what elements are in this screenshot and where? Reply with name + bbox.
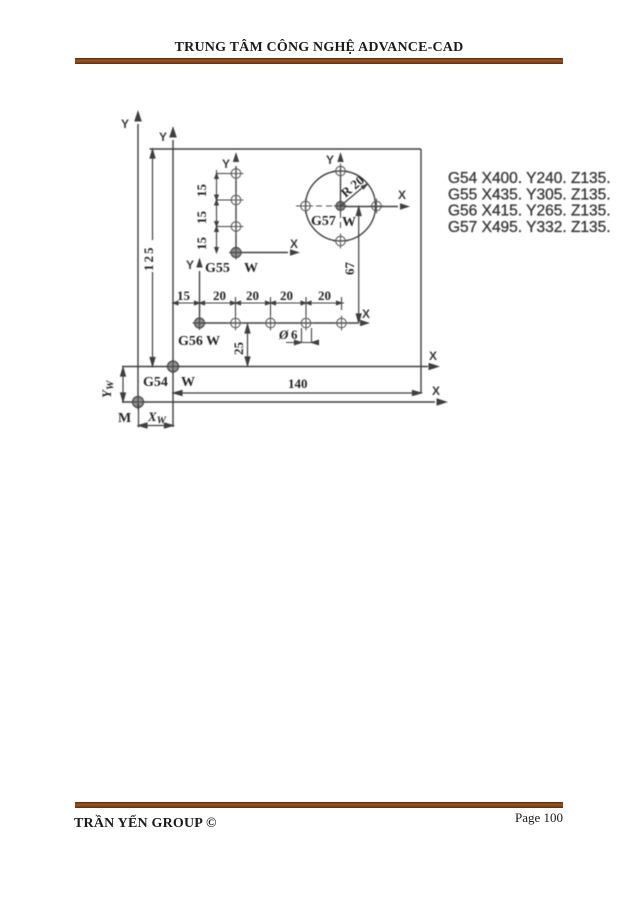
svg-text:R 20: R 20 [338, 172, 367, 200]
header title [0, 40, 638, 56]
footer right [515, 810, 563, 826]
workpiece outline top edge [150, 148, 422, 150]
svg-text:Y: Y [121, 117, 129, 131]
G56 spacing dimension row [173, 297, 344, 316]
arrowhead M Y [134, 110, 142, 122]
svg-text:G56: G56 [178, 334, 203, 349]
svg-text:15: 15 [194, 211, 209, 225]
svg-text:W: W [206, 334, 220, 349]
svg-text:67: 67 [342, 262, 357, 276]
axis G55 X [236, 252, 288, 254]
hole G55-3 [231, 222, 241, 232]
svg-text:G57 X495. Y332. Z135.: G57 X495. Y332. Z135. [448, 219, 611, 236]
svg-text:125: 125 [141, 246, 156, 272]
arrowhead G55 Y [233, 152, 239, 162]
axis G56 X [200, 322, 359, 324]
axis G57 Y [340, 166, 342, 206]
G57 dashed centerlines [296, 206, 341, 232]
arrowhead G54 Y [169, 126, 177, 138]
axis G55 Y [235, 166, 237, 253]
svg-text:X: X [432, 384, 440, 398]
svg-text:G54: G54 [143, 375, 168, 390]
svg-text:140: 140 [288, 376, 308, 391]
arrowhead G57 Y [337, 152, 343, 162]
arrowhead G54 X [429, 363, 441, 371]
dimension Xw [139, 404, 174, 428]
arrowhead G56 X [360, 320, 370, 326]
svg-text:15: 15 [177, 288, 191, 303]
svg-text:6: 6 [291, 327, 298, 342]
dimension Yw [121, 368, 126, 402]
footer left [74, 816, 217, 832]
axis G54 X (workpiece bottom edge) [122, 366, 428, 368]
footer rule [75, 802, 563, 808]
svg-text:X: X [398, 188, 406, 202]
svg-text:G54 X400. Y240. Z135.: G54 X400. Y240. Z135. [448, 170, 611, 187]
svg-text:20: 20 [280, 288, 293, 303]
hole G56-5 [337, 318, 347, 328]
svg-text:G55: G55 [205, 261, 230, 276]
hole G57 left [301, 201, 311, 211]
svg-text:15: 15 [194, 184, 209, 198]
hole G56-2 [231, 318, 241, 328]
hole G56-4 [301, 318, 311, 328]
origin symbol G56 [193, 316, 207, 330]
svg-text:25: 25 [231, 342, 246, 356]
dimension 140 [174, 391, 422, 396]
hole G55-2 [231, 195, 241, 205]
arrowhead G57 X [400, 203, 410, 209]
origin symbol G55 [229, 246, 243, 260]
svg-text:W: W [244, 261, 258, 276]
svg-text:W: W [181, 375, 195, 390]
svg-text:X: X [362, 307, 370, 321]
hole G57 right [372, 201, 382, 211]
svg-text:G57: G57 [311, 214, 336, 229]
dimension 25 [245, 325, 250, 366]
svg-text:M: M [118, 411, 131, 426]
svg-text:X: X [290, 237, 298, 251]
G55 holes column [229, 166, 244, 234]
G57 bolt circle [306, 171, 376, 241]
G55 15-dim column [215, 170, 231, 253]
dimension 67 [356, 207, 361, 323]
workpiece outline right edge [420, 149, 422, 394]
G56 holes row [228, 316, 349, 331]
svg-text:Ø: Ø [278, 327, 289, 342]
arrowhead M X [437, 398, 449, 406]
G57 center mark [334, 200, 347, 213]
origin symbol G54 [166, 359, 181, 374]
svg-text:G55 X435. Y305. Z135.: G55 X435. Y305. Z135. [448, 186, 611, 203]
svg-text:XW: XW [147, 409, 167, 427]
hole G55-1 [231, 169, 241, 179]
arrowhead G56 Y [196, 258, 202, 268]
axis G54 Y (workpiece left edge) [172, 140, 174, 427]
svg-text:Y: Y [222, 157, 230, 171]
hole G57 top [298, 164, 384, 249]
svg-text:G56 X415. Y265. Z135.: G56 X415. Y265. Z135. [448, 203, 611, 220]
svg-text:YW: YW [99, 380, 117, 398]
svg-text:Y: Y [186, 258, 194, 272]
svg-text:Y: Y [326, 153, 334, 167]
svg-text:X: X [429, 349, 437, 363]
hole G57 bottom [336, 236, 346, 246]
arrowhead G55 X [290, 249, 300, 255]
svg-text:W: W [342, 215, 356, 230]
svg-text:15: 15 [194, 237, 209, 251]
G57 radius line R20 [341, 184, 368, 207]
axis G57 X [341, 206, 399, 208]
hole G56-3 [266, 318, 276, 328]
origin symbol M [131, 395, 146, 410]
svg-text:20: 20 [213, 288, 226, 303]
dimension Ø6 leader [286, 328, 319, 345]
axis M X [122, 401, 435, 403]
axis M Y [137, 124, 139, 402]
svg-text:Y: Y [159, 130, 167, 144]
axis G56 Y [199, 271, 201, 323]
svg-text:20: 20 [318, 288, 331, 303]
svg-text:20: 20 [246, 288, 259, 303]
dimension 125 [150, 150, 155, 367]
header rule [75, 58, 563, 64]
